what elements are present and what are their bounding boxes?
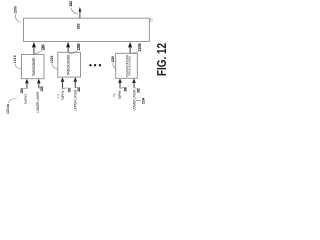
leader arc 1212	[71, 8, 78, 14]
svg-text:LOWER LAYER: LOWER LAYER	[132, 89, 136, 111]
box2 transceiver	[58, 52, 81, 77]
big box 1202	[24, 18, 150, 41]
svg-text:To/PHY: To/PHY	[24, 93, 28, 104]
leader arc from 1200 to box corner	[15, 15, 20, 23]
box3 transceiver	[116, 53, 138, 78]
svg-text:To: To	[113, 93, 117, 97]
top arrow out of big box	[79, 11, 81, 18]
svg-text:1208: 1208	[137, 43, 142, 52]
svg-text:1222: 1222	[68, 88, 72, 93]
label 1200	[13, 6, 17, 14]
svg-text:1230: 1230	[124, 87, 128, 92]
svg-text:To/PHY: To/PHY	[118, 89, 122, 99]
box3 bottom arrow left	[118, 78, 122, 83]
arrow box3 to big box	[129, 46, 131, 53]
svg-text:LOWER LAYER: LOWER LAYER	[36, 91, 40, 113]
box1 bottom arrow left	[25, 79, 29, 84]
svg-text:1228: 1228	[111, 56, 115, 63]
svg-text:1204: 1204	[40, 44, 45, 51]
svg-text:1200: 1200	[13, 6, 17, 14]
svg-text:1220: 1220	[40, 86, 44, 92]
svg-text:PROCESSING: PROCESSING	[127, 55, 131, 76]
svg-text:1206: 1206	[76, 43, 81, 51]
svg-text:1216: 1216	[13, 55, 17, 63]
box1 bottom arrow right	[37, 79, 41, 84]
svg-text:1232: 1232	[137, 88, 141, 93]
arrow box2 to big box	[67, 46, 69, 52]
svg-text:TRANSCEIVER: TRANSCEIVER	[32, 57, 36, 77]
ellipsis dots	[89, 64, 91, 66]
box1 transceiver	[22, 55, 45, 79]
svg-text:FIG. 12: FIG. 12	[154, 43, 169, 76]
svg-text:1210: 1210	[149, 17, 153, 22]
svg-text:1214a: 1214a	[6, 104, 10, 114]
box2 bottom arrow right	[74, 77, 78, 82]
box3 bottom arrow right	[132, 78, 136, 83]
svg-text:To: To	[56, 94, 60, 99]
svg-text:1212: 1212	[69, 1, 73, 7]
svg-text:1234: 1234	[142, 98, 146, 105]
svg-text:TRANSCEIVER: TRANSCEIVER	[67, 54, 71, 76]
svg-text:1202: 1202	[77, 23, 81, 29]
svg-text:1224: 1224	[77, 87, 81, 92]
arrow box1 to big box	[33, 46, 35, 55]
box2 bottom arrow left	[61, 77, 65, 82]
svg-text:1218: 1218	[20, 88, 24, 94]
svg-text:1226: 1226	[50, 56, 54, 64]
svg-text:To/PHY: To/PHY	[61, 89, 65, 100]
